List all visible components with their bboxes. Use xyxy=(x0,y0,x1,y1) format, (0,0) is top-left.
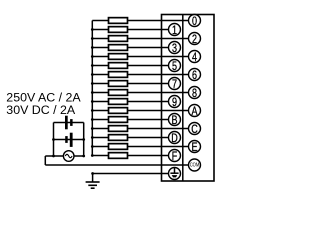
svg-text:C: C xyxy=(191,123,198,137)
terminal 6 xyxy=(189,69,201,83)
contact K1 (250V AC) plates xyxy=(65,116,73,130)
ground stem wire xyxy=(92,174,94,183)
wire row 2 (bus to terminal 2) xyxy=(92,38,188,40)
terminal 3 xyxy=(169,42,181,56)
junction dot on bus at row B xyxy=(91,118,94,121)
wire contact row 1 xyxy=(54,122,84,124)
wire row E (bus to terminal E) xyxy=(92,146,188,148)
junction dot on bus at row 9 xyxy=(91,100,94,103)
terminal A xyxy=(189,105,201,119)
junction dot on bus at row D xyxy=(91,136,94,139)
terminal COM xyxy=(189,159,201,171)
terminal E xyxy=(189,141,201,155)
relay output contact rectangle row D xyxy=(109,135,128,141)
wire row 9 (bus to terminal 9) xyxy=(92,101,168,103)
wire row 3 (bus to terminal 3) xyxy=(92,47,168,49)
relay output contact rectangle row 1 xyxy=(109,27,128,33)
terminal functional-earth (circle with earth symbol) xyxy=(169,168,181,180)
terminal 5 xyxy=(169,60,181,74)
svg-text:0: 0 xyxy=(192,15,197,29)
wire row 1 (bus to terminal 1) xyxy=(92,29,168,31)
junction dot on bus at row 8 xyxy=(91,91,94,94)
relay output contact rectangle row 6 xyxy=(109,72,128,78)
wire row D (bus to terminal D) xyxy=(92,137,168,139)
terminal 7 xyxy=(169,78,181,92)
wire AC source row xyxy=(45,155,83,157)
svg-text:7: 7 xyxy=(172,78,177,92)
svg-text:E: E xyxy=(191,141,197,155)
right rail wire of source loop xyxy=(83,123,85,157)
terminal B xyxy=(169,114,181,128)
COM bus wire (power return to COM terminal) xyxy=(45,164,188,166)
relay output contact rectangle row A xyxy=(109,108,128,114)
terminal 1 xyxy=(169,24,181,38)
terminal 2 xyxy=(189,33,201,47)
wire row B (bus to terminal B) xyxy=(92,119,168,121)
svg-text:6: 6 xyxy=(192,69,197,83)
relay output contact rectangle row C xyxy=(109,126,128,132)
junction dot on bus at row C xyxy=(91,127,94,130)
svg-text:5: 5 xyxy=(172,60,177,74)
contact K2 (30V DC) plates xyxy=(65,133,72,147)
earth wire to functional-earth terminal xyxy=(93,173,169,175)
terminal 9 xyxy=(169,96,181,110)
wire from AC source loop down to COM bus xyxy=(44,156,46,165)
relay output contact rectangle row 9 xyxy=(109,99,128,105)
terminal F xyxy=(169,150,181,164)
svg-text:F: F xyxy=(172,150,178,164)
junction dot on bus at row 2 xyxy=(91,37,94,40)
junction dot on bus at row 3 xyxy=(91,46,94,49)
relay output contact rectangle row 7 xyxy=(109,81,128,87)
wire row 8 (bus to terminal 8) xyxy=(92,92,188,94)
relay output contact rectangle row 2 xyxy=(109,36,128,42)
wire row C (bus to terminal C) xyxy=(92,128,188,130)
wire row 7 (bus to terminal 7) xyxy=(92,83,168,85)
svg-text:9: 9 xyxy=(172,96,177,110)
relay output contact rectangle row 3 xyxy=(109,45,128,51)
relay output contact rectangle row F xyxy=(109,153,128,159)
svg-text:250V AC / 2A: 250V AC / 2A xyxy=(6,90,81,104)
junction dot on bus at row 7 xyxy=(91,82,94,85)
left vertical bus wire of contact stack xyxy=(91,21,93,156)
ground symbol xyxy=(86,182,100,188)
junction dot at ground stem xyxy=(91,172,94,175)
junction dot right rail / row2 xyxy=(82,138,85,141)
relay output contact rectangle row B xyxy=(109,117,128,123)
svg-text:A: A xyxy=(191,105,198,119)
relay output contact rectangle row 0 xyxy=(109,18,128,24)
svg-text:30V DC / 2A: 30V DC / 2A xyxy=(6,103,76,117)
svg-text:2: 2 xyxy=(192,33,197,47)
relay output contact rectangle row 8 xyxy=(109,90,128,96)
junction dot on bus at row F xyxy=(91,154,94,157)
left rail wire of source loop xyxy=(53,123,55,157)
relay output contact rectangle row 4 xyxy=(109,54,128,60)
terminal C xyxy=(189,123,201,137)
svg-text:B: B xyxy=(171,114,177,128)
terminal block housing (outer box) xyxy=(162,15,215,182)
wire row 4 (bus to terminal 4) xyxy=(92,56,188,58)
junction dot on bus at row 1 xyxy=(91,28,94,31)
svg-text:D: D xyxy=(171,132,178,146)
svg-text:8: 8 xyxy=(192,87,197,101)
wire row A (bus to terminal A) xyxy=(92,110,188,112)
junction dot on bus at row A xyxy=(91,109,94,112)
terminal D xyxy=(169,132,181,146)
svg-text:4: 4 xyxy=(192,51,197,65)
junction dot left rail / row2 xyxy=(52,138,55,141)
terminal 8 xyxy=(189,87,201,101)
relay output contact rectangle row 5 xyxy=(109,63,128,69)
junction dot on bus at row 6 xyxy=(91,73,94,76)
svg-text:3: 3 xyxy=(172,42,177,56)
terminal 4 xyxy=(189,51,201,65)
junction dot on bus at row 5 xyxy=(91,64,94,67)
AC source G1 xyxy=(63,151,74,162)
svg-text:COM: COM xyxy=(190,162,200,167)
junction dot right rail / AC row xyxy=(82,155,85,158)
relay output contact rectangle row E xyxy=(109,144,128,150)
terminal block divider line xyxy=(182,15,184,182)
wire row 0 (bus to terminal 0) xyxy=(92,20,188,22)
terminal 0 xyxy=(189,15,201,29)
junction dot on bus at row 4 xyxy=(91,55,94,58)
svg-text:1: 1 xyxy=(172,24,177,38)
junction dot on bus at row E xyxy=(91,145,94,148)
wire row 6 (bus to terminal 6) xyxy=(92,74,188,76)
wire row F (bus to terminal F) xyxy=(92,155,168,157)
junction dot left rail / AC row xyxy=(52,155,55,158)
wire row 5 (bus to terminal 5) xyxy=(92,65,168,67)
wire contact row 2 xyxy=(54,139,84,141)
